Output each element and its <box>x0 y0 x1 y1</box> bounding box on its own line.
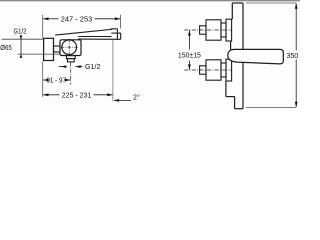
dim 91-97 line right stub <box>67 79 71 81</box>
dim 150 line upper <box>188 30 190 49</box>
svg-text:G1/2: G1/2 <box>14 27 27 35</box>
bottom union centerline <box>184 69 232 71</box>
dim 225-231 right extension <box>112 40 114 102</box>
bottom union stub <box>200 66 206 74</box>
svg-text:2°: 2° <box>133 94 140 102</box>
bar left edge upper <box>231 3 233 19</box>
dim 350 arrow top <box>295 3 298 9</box>
dim 150 arrow top <box>188 30 191 35</box>
spout blade top line <box>111 32 120 34</box>
outlet centerline <box>70 63 72 85</box>
spout blade mid line <box>78 36 111 38</box>
dim 247-253 right extension <box>120 15 122 29</box>
svg-text:Ø65: Ø65 <box>0 44 12 52</box>
dim 225-231 line left <box>43 94 59 96</box>
dim 225-231 arrow right <box>107 93 113 96</box>
handle knob circle <box>62 40 77 55</box>
top union boss <box>226 19 232 41</box>
svg-text:247 - 253: 247 - 253 <box>61 15 93 23</box>
leader 2 degrees line <box>114 99 131 101</box>
spout blade bottom line <box>78 38 120 40</box>
svg-text:225 - 231: 225 - 231 <box>62 91 92 99</box>
svg-text:91 - 97: 91 - 97 <box>46 76 66 84</box>
svg-text:350: 350 <box>286 52 298 60</box>
spout side profile (stadium, white filled, over bar) <box>228 49 284 64</box>
spout top sloping cover line <box>55 29 117 35</box>
connector between backplate and body <box>54 46 61 52</box>
dim O65 vertical line <box>20 36 22 58</box>
handle centerline vertical <box>68 39 70 56</box>
dim 150 line lower <box>188 61 190 70</box>
dim O65 arrow top <box>20 35 23 39</box>
dim 350 bottom extension <box>246 106 296 108</box>
bottom stub left edge <box>234 97 236 109</box>
svg-text:150±15: 150±15 <box>178 51 201 59</box>
dim 91-97 arrow left <box>43 79 49 82</box>
bottom union nut <box>221 63 226 77</box>
wall backplate <box>44 38 54 60</box>
spout tip cap right edge <box>116 29 118 40</box>
outlet collar <box>66 56 75 59</box>
dim 91-97 arrow right <box>65 79 71 82</box>
spout blade right edge <box>120 33 122 39</box>
top union stub <box>200 26 206 34</box>
dim 247-253 arrow right <box>115 17 121 20</box>
dim 247-253 line left <box>43 18 58 20</box>
top union nut <box>221 23 226 37</box>
dim 225-231 left extension <box>42 61 44 97</box>
top union centerline <box>184 29 232 31</box>
dim 247-253 left extension <box>42 15 44 38</box>
dim 150 arrow bottom <box>188 64 191 70</box>
dim 350 top extension <box>246 2 296 4</box>
body <box>60 40 81 56</box>
dim 225-231 line right <box>94 94 113 96</box>
dim G1/2 bottom: left arrow <box>61 65 67 68</box>
dim 350 line upper <box>295 3 297 50</box>
svg-text:G1/2: G1/2 <box>85 63 101 71</box>
dim 91-97 line left stub <box>43 79 46 81</box>
outlet nipple <box>67 59 74 62</box>
bottom union flange <box>206 60 221 80</box>
dim 247-253 line right <box>95 18 121 20</box>
top page border <box>0 0 300 2</box>
handle centerline horizontal <box>61 46 78 48</box>
dim G1/2 bottom: right line <box>75 66 82 68</box>
dim 350 line lower <box>295 60 297 108</box>
dim 225-231 arrow left <box>43 93 49 96</box>
lower body step <box>226 96 235 98</box>
bottom stub bottom edge <box>235 108 243 110</box>
dim G1/2 bottom: left line <box>59 66 66 68</box>
lower body section left edge <box>225 81 227 97</box>
top union flange <box>206 20 221 40</box>
dim O65 top tangent extension <box>2 38 44 40</box>
bar top cap <box>232 2 243 4</box>
dim 350 arrow bottom <box>295 102 298 108</box>
bar body right edge <box>242 3 244 109</box>
bar left edge mid (between union and spout) <box>230 41 232 50</box>
dim G1/2 bottom: right arrow <box>75 65 81 68</box>
leader 2 degrees arrow <box>114 99 120 102</box>
dim O65 arrow bottom <box>20 54 23 58</box>
dim O65 bottom tangent extension <box>18 53 60 55</box>
bottom union boss <box>226 59 232 81</box>
dim 247-253 arrow left <box>43 17 49 20</box>
